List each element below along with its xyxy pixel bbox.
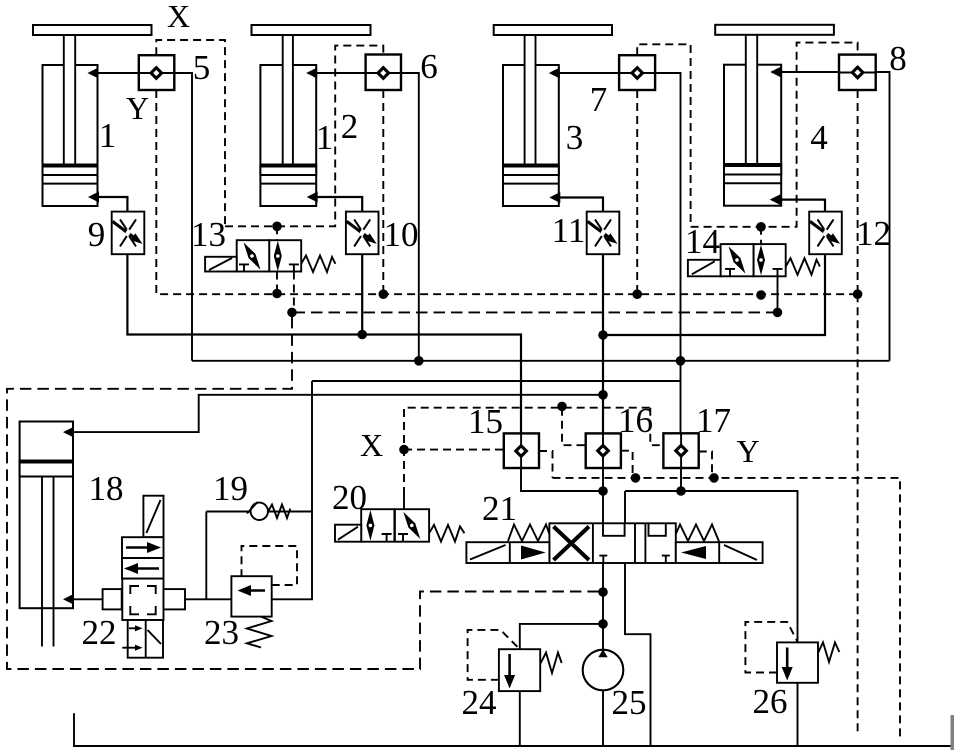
svg-text:23: 23 bbox=[204, 613, 239, 652]
svg-text:11: 11 bbox=[552, 211, 586, 250]
svg-text:16: 16 bbox=[618, 401, 653, 440]
svg-text:15: 15 bbox=[468, 402, 503, 441]
svg-text:13: 13 bbox=[191, 215, 226, 254]
svg-text:3: 3 bbox=[566, 118, 584, 157]
svg-text:10: 10 bbox=[384, 215, 419, 254]
svg-text:7: 7 bbox=[590, 80, 608, 119]
svg-text:25: 25 bbox=[612, 683, 647, 722]
svg-text:X: X bbox=[360, 427, 383, 463]
svg-text:9: 9 bbox=[88, 215, 106, 254]
svg-text:1: 1 bbox=[316, 118, 334, 157]
svg-text:Y: Y bbox=[736, 433, 759, 469]
svg-text:5: 5 bbox=[193, 48, 211, 87]
svg-text:20: 20 bbox=[332, 478, 367, 517]
svg-text:19: 19 bbox=[213, 469, 248, 508]
svg-text:26: 26 bbox=[753, 682, 788, 721]
svg-text:24: 24 bbox=[462, 683, 497, 722]
svg-text:21: 21 bbox=[482, 489, 517, 528]
svg-text:6: 6 bbox=[420, 47, 438, 86]
svg-text:17: 17 bbox=[696, 401, 731, 440]
svg-text:22: 22 bbox=[82, 613, 117, 652]
svg-text:8: 8 bbox=[889, 39, 907, 78]
svg-text:14: 14 bbox=[685, 222, 720, 261]
svg-text:X: X bbox=[167, 0, 190, 34]
svg-text:4: 4 bbox=[810, 118, 828, 157]
svg-text:2: 2 bbox=[341, 107, 359, 146]
svg-text:12: 12 bbox=[856, 214, 891, 253]
svg-text:1: 1 bbox=[99, 116, 117, 155]
svg-text:18: 18 bbox=[89, 469, 124, 508]
svg-text:Y: Y bbox=[126, 90, 149, 126]
